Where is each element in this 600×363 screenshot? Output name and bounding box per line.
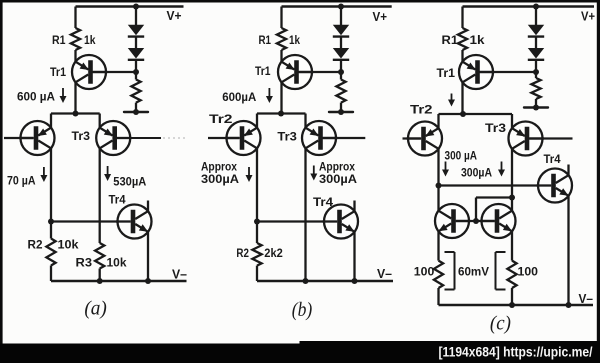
svg-text:V+: V+ xyxy=(373,9,388,24)
svg-text:Tr1: Tr1 xyxy=(437,66,456,80)
svg-text:Tr1: Tr1 xyxy=(50,65,66,79)
svg-text:1k: 1k xyxy=(470,33,485,47)
svg-text:(a): (a) xyxy=(84,299,107,320)
svg-text:Tr4: Tr4 xyxy=(109,193,126,207)
svg-text:300µA: 300µA xyxy=(201,172,239,186)
svg-text:600µA: 600µA xyxy=(222,90,256,104)
svg-text:Tr1: Tr1 xyxy=(255,64,271,78)
svg-text:600 µA: 600 µA xyxy=(17,90,55,104)
svg-text:60mV: 60mV xyxy=(458,265,489,279)
svg-text:Tr2: Tr2 xyxy=(209,112,233,126)
svg-text:(c): (c) xyxy=(490,313,511,335)
svg-text:Tr3: Tr3 xyxy=(485,121,506,135)
svg-text:Tr4: Tr4 xyxy=(544,152,561,166)
svg-text:300µA: 300µA xyxy=(461,166,492,180)
svg-text:R2: R2 xyxy=(28,238,43,252)
svg-text:V+: V+ xyxy=(167,8,182,23)
svg-text:100: 100 xyxy=(414,265,435,279)
svg-text:1k: 1k xyxy=(289,33,300,47)
svg-text:(b): (b) xyxy=(292,299,313,321)
svg-text:R3: R3 xyxy=(76,256,93,270)
svg-text:[1194x684] https://upic.me/: [1194x684] https://upic.me/ xyxy=(439,345,593,361)
svg-text:V–: V– xyxy=(579,291,594,306)
svg-text:R1: R1 xyxy=(52,33,66,47)
svg-text:2k2: 2k2 xyxy=(264,246,283,260)
svg-text:V–: V– xyxy=(172,267,187,282)
svg-text:100: 100 xyxy=(518,265,539,279)
svg-text:V+: V+ xyxy=(581,9,595,24)
svg-text:70 µA: 70 µA xyxy=(7,174,36,188)
svg-text:300 µA: 300 µA xyxy=(445,149,478,163)
svg-text:300µA: 300µA xyxy=(319,172,357,186)
svg-text:1k: 1k xyxy=(84,33,96,47)
svg-text:10k: 10k xyxy=(107,256,127,270)
svg-text:10k: 10k xyxy=(58,238,79,252)
svg-text:R2: R2 xyxy=(236,246,249,260)
svg-text:R1: R1 xyxy=(259,33,272,47)
svg-text:R1: R1 xyxy=(442,33,459,47)
svg-text:530µA: 530µA xyxy=(113,175,146,189)
svg-text:Tr3: Tr3 xyxy=(277,130,297,144)
svg-text:Tr4: Tr4 xyxy=(313,195,333,209)
svg-text:V–: V– xyxy=(377,266,392,281)
svg-text:Tr3: Tr3 xyxy=(72,129,91,143)
svg-text:Tr2: Tr2 xyxy=(410,103,433,117)
